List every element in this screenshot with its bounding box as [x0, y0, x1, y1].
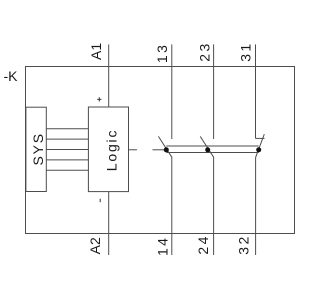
relay -K outer enclosure box: [26, 67, 295, 234]
wire SYS-Logic bus line 4: [46, 159, 88, 161]
svg-text:13: 13: [154, 43, 170, 63]
actuator bar upper line: [166, 145, 258, 147]
terminal A2 wire: [108, 192, 110, 255]
actuator bar lower line: [166, 152, 258, 154]
actuator link wire dash 2: [153, 149, 167, 151]
wire SYS-Logic bus line 1: [46, 128, 88, 130]
wire SYS-Logic bus line 5: [46, 169, 88, 171]
svg-text:A1: A1: [88, 43, 104, 60]
contact 31 NC stop foot: [256, 137, 265, 139]
contact 13-14 NO blade: [158, 136, 171, 157]
svg-text:Logic: Logic: [104, 129, 120, 171]
wire SYS-Logic bus line 3: [46, 149, 88, 151]
svg-text:SYS: SYS: [30, 132, 46, 165]
svg-text:A2: A2: [87, 237, 103, 254]
svg-text:-K: -K: [4, 68, 19, 84]
svg-text:31: 31: [238, 41, 254, 61]
svg-text:24: 24: [195, 234, 211, 254]
terminal 23 wire: [213, 44, 215, 139]
terminal 32 wire: [255, 157, 257, 255]
terminal 24 wire: [213, 157, 215, 255]
terminal A1 wire: [108, 44, 110, 107]
svg-text:14: 14: [155, 236, 171, 256]
junction dot contact 1: [164, 147, 169, 152]
contact 31-32 NC blade: [256, 134, 265, 157]
terminal 14 wire: [171, 157, 173, 255]
contact 23-24 NO blade: [200, 136, 213, 157]
junction dot contact 2: [205, 147, 210, 152]
junction dot contact 3: [256, 147, 261, 152]
terminal 13 wire: [171, 44, 173, 139]
polarity +: [97, 97, 101, 101]
polarity -: [99, 199, 101, 203]
block SYS: [26, 107, 46, 191]
wire SYS-Logic bus line 2: [46, 138, 88, 140]
block Logic: [88, 107, 128, 192]
terminal 31 wire: [255, 44, 257, 138]
actuator link wire from Logic dash 1: [129, 149, 138, 151]
svg-text:23: 23: [196, 41, 212, 61]
svg-text:32: 32: [236, 234, 252, 254]
